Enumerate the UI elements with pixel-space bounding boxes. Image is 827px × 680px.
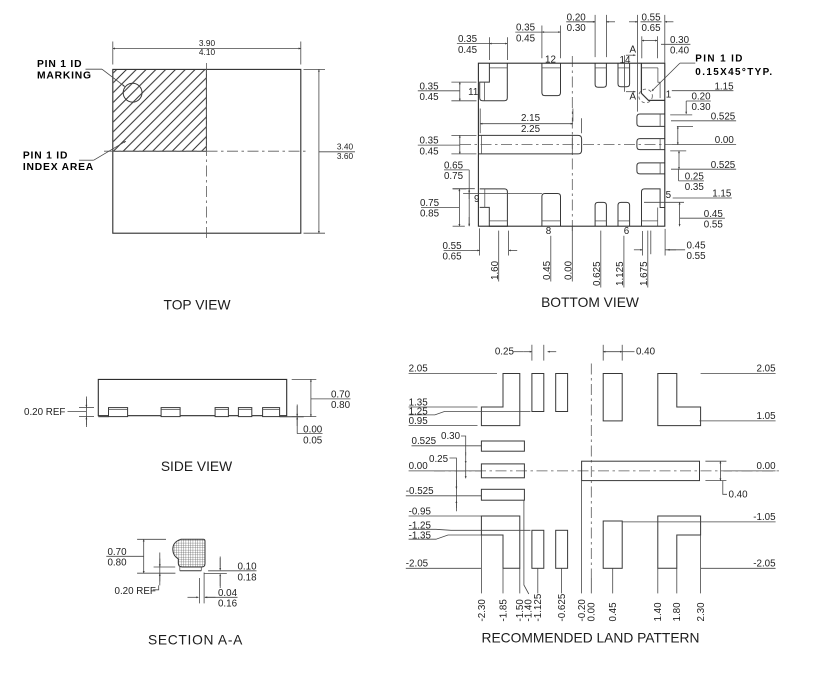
dimension 0.35/0.45 pin 11 left arm xyxy=(418,81,477,103)
svg-text:0.25: 0.25 xyxy=(495,347,515,358)
coordinate 2.05 left xyxy=(409,364,497,375)
land pad bottom-left L xyxy=(481,516,519,568)
coordinate 0.00 right xyxy=(723,461,776,472)
dimension 3.40 / 3.60 body height xyxy=(304,69,356,233)
label 14 xyxy=(620,55,631,66)
pin 10 long pad xyxy=(478,135,581,154)
pin 1 pad (top-right corner) with chamfer xyxy=(641,63,664,100)
dimension 0.20 REF side view xyxy=(24,397,94,428)
pin 13 pad xyxy=(595,63,606,87)
coordinate -1.05 right xyxy=(622,512,776,523)
land pad bottom 0.45 xyxy=(603,521,622,568)
land pad bottom small 2 xyxy=(556,530,568,568)
coordinate 0.45 bottom xyxy=(608,568,619,621)
dimension 0.04/0.16 lead offset xyxy=(188,573,238,610)
coordinate line 1.125 xyxy=(615,236,626,288)
svg-text:14: 14 xyxy=(620,55,631,66)
land pad left row upper xyxy=(481,441,524,451)
coordinate 0.95 left xyxy=(409,416,478,427)
svg-text:1.40: 1.40 xyxy=(653,602,664,622)
svg-text:1.675: 1.675 xyxy=(639,261,650,286)
arrow pair pad3 bottom to 0.525 line xyxy=(678,151,680,169)
pin 1 chamfer dashed circle xyxy=(639,89,653,103)
svg-text:PIN 1 ID: PIN 1 ID xyxy=(695,54,744,65)
title RECOMMENDED LAND PATTERN xyxy=(482,630,700,645)
label 12 xyxy=(545,55,556,66)
svg-text:A: A xyxy=(630,92,637,103)
pin 6 pad xyxy=(618,202,630,226)
svg-text:0.65: 0.65 xyxy=(442,252,462,263)
dimension 0.20 REF section xyxy=(115,553,176,597)
svg-text:SIDE VIEW: SIDE VIEW xyxy=(161,459,232,474)
svg-text:11: 11 xyxy=(468,87,478,98)
svg-text:0.45: 0.45 xyxy=(542,260,553,280)
coordinate 2.30 bottom xyxy=(696,535,707,622)
svg-text:0.80: 0.80 xyxy=(331,400,351,411)
title TOP VIEW xyxy=(164,298,231,313)
pin 8 pad xyxy=(542,194,561,227)
dimension 0.55/0.65 pin 1 pad xyxy=(629,12,673,111)
label 1 xyxy=(666,90,671,101)
dimension 0.00/0.05 standoff xyxy=(297,405,323,447)
svg-text:1.80: 1.80 xyxy=(672,602,683,622)
svg-text:9: 9 xyxy=(474,194,479,205)
pin 3 pad xyxy=(637,139,665,150)
dimension 0.25/0.35 xyxy=(679,169,705,193)
svg-text:PIN 1 ID: PIN 1 ID xyxy=(23,151,68,162)
coordinate line 0.00 bottom xyxy=(564,226,575,281)
land pad left row lower xyxy=(481,489,524,500)
svg-text:0.75: 0.75 xyxy=(444,171,464,182)
dimension 3.90 / 4.10 body width xyxy=(113,38,301,64)
svg-text:0.00: 0.00 xyxy=(587,602,598,622)
coordinate line 0.625 xyxy=(592,231,603,288)
pin 5 pad (bottom-right corner) xyxy=(642,189,665,226)
pin 4 pad xyxy=(637,163,665,174)
coordinate -2.05 left xyxy=(406,559,482,570)
svg-text:12: 12 xyxy=(545,55,556,66)
dimension 0.40 land top xyxy=(603,345,655,361)
svg-text:8: 8 xyxy=(546,226,552,237)
dimension 0.70/0.80 side view height xyxy=(292,379,351,416)
pin 11 pad (top-left corner) xyxy=(480,63,508,101)
svg-text:5: 5 xyxy=(666,190,672,201)
land pad top small 1 xyxy=(532,374,544,412)
coordinate 1.80 bottom xyxy=(672,568,683,621)
svg-text:1.60: 1.60 xyxy=(490,260,501,280)
svg-text:INDEX AREA: INDEX AREA xyxy=(23,162,94,173)
pad 3 bottom reference line xyxy=(670,150,686,152)
svg-text:0.45: 0.45 xyxy=(516,33,536,44)
land pad long center xyxy=(582,461,700,480)
dimension 0.20/0.30 pin 2 xyxy=(670,92,711,127)
svg-text:0.30: 0.30 xyxy=(567,23,587,34)
svg-text:0.55: 0.55 xyxy=(686,251,706,262)
coordinate -0.95 left xyxy=(409,506,482,517)
dimension 0.45/0.55 bottom right xyxy=(634,229,706,262)
dimension 0.40 long pad right xyxy=(705,461,748,500)
coordinate -0.625 bottom xyxy=(557,568,568,621)
svg-text:RECOMMENDED LAND PATTERN: RECOMMENDED LAND PATTERN xyxy=(482,630,700,645)
land pad bottom-right L xyxy=(658,516,701,568)
dimension 2.15/2.25 pin 10 length xyxy=(480,109,581,135)
coordinate -1.125 bottom xyxy=(533,568,544,621)
land pattern vertical centerline xyxy=(590,364,592,579)
side view seating plane ticks xyxy=(98,416,303,418)
svg-text:4.10: 4.10 xyxy=(199,47,216,57)
label 8 xyxy=(546,226,552,237)
svg-text:1: 1 xyxy=(666,90,671,101)
bottom view horizontal centerline xyxy=(460,144,672,146)
svg-text:0.20 REF: 0.20 REF xyxy=(115,586,156,597)
svg-text:0.40: 0.40 xyxy=(670,46,690,57)
side view lead 1 xyxy=(109,408,128,417)
label PIN 1 ID INDEX AREA with leader xyxy=(23,141,126,173)
svg-text:0.20 REF: 0.20 REF xyxy=(24,407,65,418)
svg-text:2.15: 2.15 xyxy=(521,113,541,124)
dimension 0.70/0.80 section height xyxy=(106,539,175,573)
bottom view vertical centerline xyxy=(571,56,573,231)
svg-text:0.45: 0.45 xyxy=(419,146,439,157)
top view horizontal centerline xyxy=(104,150,309,152)
section A-A cut line xyxy=(624,44,636,102)
pin 14 pad xyxy=(618,63,630,86)
coordinate -0.525 left xyxy=(406,486,481,497)
coordinate -1.35 left xyxy=(409,531,482,542)
svg-text:SECTION A-A: SECTION A-A xyxy=(148,633,243,648)
coordinate -2.30 bottom xyxy=(477,535,488,622)
land pad bottom small 1 xyxy=(532,530,544,568)
svg-text:-1.05: -1.05 xyxy=(753,512,776,523)
dimension 0.35/0.45 pin 11 top arm xyxy=(457,34,508,60)
land pad top-right L xyxy=(658,374,701,426)
svg-text:-1.35: -1.35 xyxy=(409,531,432,542)
side view lead 3 xyxy=(215,408,228,417)
pin 1 index area hatch xyxy=(113,69,207,151)
svg-text:0.30: 0.30 xyxy=(691,102,711,113)
dimension 0.75/0.85 pad 9 height xyxy=(420,189,466,226)
svg-text:0.35: 0.35 xyxy=(685,182,705,193)
label 6 xyxy=(624,226,630,237)
coordinate -1.40 bottom xyxy=(523,501,534,622)
coordinate line 0.00 right xyxy=(672,135,736,146)
svg-text:-2.05: -2.05 xyxy=(753,559,776,570)
side view lead 5 xyxy=(263,408,280,417)
dimension 0.10/0.18 lead thickness xyxy=(204,557,257,589)
svg-text:-2.05: -2.05 xyxy=(406,559,429,570)
coordinate line 0.45 xyxy=(542,236,553,282)
svg-text:0.00: 0.00 xyxy=(757,461,777,472)
label 11 xyxy=(468,87,478,98)
coordinate line 1.675 xyxy=(639,231,651,288)
svg-text:0.16: 0.16 xyxy=(218,599,238,610)
coordinate 1.05 right xyxy=(700,411,777,422)
bottom view package body outline xyxy=(478,63,664,226)
coordinate 1.40 bottom xyxy=(653,568,664,621)
svg-text:0.625: 0.625 xyxy=(592,261,603,286)
coordinate 2.05 right xyxy=(701,364,777,375)
svg-text:0.65: 0.65 xyxy=(641,23,661,34)
coordinate -0.20 bottom xyxy=(577,481,588,622)
svg-text:0.18: 0.18 xyxy=(237,572,257,583)
svg-text:MARKING: MARKING xyxy=(37,71,92,82)
pin 12 pad xyxy=(542,63,561,95)
svg-text:0.05: 0.05 xyxy=(303,436,323,447)
pin 9 pad (bottom-left corner) xyxy=(480,189,508,226)
svg-text:2.05: 2.05 xyxy=(409,364,429,375)
land pad top 0.45 xyxy=(603,374,622,421)
svg-text:BOTTOM VIEW: BOTTOM VIEW xyxy=(541,295,639,310)
svg-text:6: 6 xyxy=(624,226,630,237)
svg-text:0.70: 0.70 xyxy=(331,390,351,401)
coordinate -1.85 bottom xyxy=(498,568,509,621)
svg-text:2.25: 2.25 xyxy=(521,124,541,135)
svg-text:0.80: 0.80 xyxy=(107,558,127,569)
svg-text:0.45: 0.45 xyxy=(419,92,439,103)
svg-text:1.125: 1.125 xyxy=(615,261,626,286)
coordinate 0.00 bottom land xyxy=(587,578,598,622)
side view lead 4 xyxy=(238,408,251,417)
coordinate 0.525 left xyxy=(412,436,482,447)
coordinate line 1.60 xyxy=(490,231,501,282)
label PIN 1 ID 0.15X45 TYP with leader xyxy=(652,54,774,92)
top view package body xyxy=(113,69,301,233)
pad 8 top edge extension line xyxy=(463,193,542,195)
coordinate line 1.15 lower right xyxy=(673,188,732,199)
coordinate 1.35 left xyxy=(409,397,478,408)
coordinate -1.50 bottom xyxy=(515,568,526,621)
dimension 0.25 land top xyxy=(495,345,556,361)
dimension 0.25 land left xyxy=(429,454,456,511)
svg-text:-2.30: -2.30 xyxy=(477,599,488,622)
coordinate line 0.525 upper xyxy=(671,111,736,122)
side view lead 2 xyxy=(161,408,180,417)
dimension 0.30 land left xyxy=(441,431,466,479)
svg-text:0.00: 0.00 xyxy=(564,260,575,280)
svg-text:A: A xyxy=(630,44,637,55)
svg-text:PIN 1 ID: PIN 1 ID xyxy=(37,59,82,70)
dimension 0.35/0.45 pin 12 width xyxy=(515,23,560,59)
svg-text:2.30: 2.30 xyxy=(696,602,707,622)
dimension 0.30/0.40 pin 1 chamfer xyxy=(642,35,691,58)
svg-text:-1.125: -1.125 xyxy=(533,593,544,621)
svg-text:0.45: 0.45 xyxy=(608,602,619,622)
coordinate 1.25 left xyxy=(409,406,531,417)
svg-text:2.05: 2.05 xyxy=(757,364,777,375)
side view body outline xyxy=(98,379,286,415)
svg-text:0.55: 0.55 xyxy=(704,219,724,230)
svg-text:-0.625: -0.625 xyxy=(557,593,568,621)
title SECTION A-A xyxy=(148,633,243,648)
pin 7 pad xyxy=(595,202,606,226)
dimension 0.45/0.55 pin 5 arm xyxy=(644,202,725,230)
title BOTTOM VIEW xyxy=(541,295,639,310)
land pad left row center xyxy=(481,464,524,478)
coordinate -2.05 right xyxy=(701,559,777,570)
svg-text:-1.85: -1.85 xyxy=(498,599,509,622)
dimension 0.35/0.45 pin 10 height xyxy=(418,135,477,157)
svg-text:0.30: 0.30 xyxy=(441,431,461,442)
land pad top small 2 xyxy=(556,374,568,412)
pin 2 pad xyxy=(637,114,665,126)
svg-text:1.05: 1.05 xyxy=(757,411,777,422)
svg-text:0.40: 0.40 xyxy=(636,347,656,358)
label PIN 1 ID MARKING with leader xyxy=(37,59,125,86)
title SIDE VIEW xyxy=(161,459,232,474)
svg-text:0.85: 0.85 xyxy=(420,209,440,220)
svg-text:0.25: 0.25 xyxy=(429,454,449,465)
top view vertical centerline xyxy=(205,63,207,240)
land pad top-left L xyxy=(481,374,519,426)
svg-text:0.00: 0.00 xyxy=(303,424,323,435)
svg-text:0.15X45°TYP.: 0.15X45°TYP. xyxy=(695,67,773,78)
label 5 xyxy=(666,190,672,201)
coordinate line 1.15 upper right xyxy=(672,82,734,93)
label 9 xyxy=(474,194,479,205)
svg-text:TOP VIEW: TOP VIEW xyxy=(164,298,231,313)
svg-text:0.45: 0.45 xyxy=(686,240,706,251)
section lead bottom line xyxy=(180,567,202,571)
svg-text:0.40: 0.40 xyxy=(729,490,749,501)
dimension 0.55/0.65 bottom left xyxy=(442,228,517,262)
dimension 0.65/0.75 pad 9 offset xyxy=(444,161,475,227)
svg-text:3.60: 3.60 xyxy=(337,151,354,161)
svg-text:0.45: 0.45 xyxy=(458,45,478,56)
dimension 0.20/0.30 pin 13 width xyxy=(566,12,615,57)
section block outline xyxy=(173,539,205,567)
coordinate -1.25 left xyxy=(409,521,531,532)
land pattern horizontal centerline xyxy=(434,470,782,472)
pin 1 id marking circle xyxy=(123,83,142,102)
coordinate line 0.525 lower xyxy=(671,160,736,171)
arrow pair pad2 bottom to centerline xyxy=(677,126,679,144)
coordinate 0.00 left xyxy=(409,461,481,472)
